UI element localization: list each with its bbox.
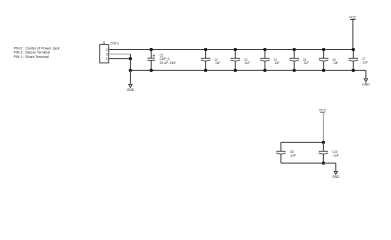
capacitor C3 xyxy=(231,48,251,72)
connector J1 box xyxy=(100,45,109,63)
wire gnd drop below connector xyxy=(129,70,131,84)
svg-text:1: 1 xyxy=(106,57,108,61)
capacitor C4 xyxy=(260,48,280,72)
svg-text:GND: GND xyxy=(362,83,370,87)
svg-text:.1uF: .1uF xyxy=(215,61,221,65)
svg-text:2: 2 xyxy=(106,48,108,52)
ground symbol right xyxy=(362,79,370,87)
capacitor C10 xyxy=(319,142,340,164)
svg-text:VCC: VCC xyxy=(349,15,356,19)
wire pin1 stub xyxy=(109,58,131,60)
svg-text:GND: GND xyxy=(332,175,340,179)
svg-text:J1: J1 xyxy=(102,41,106,45)
svg-text:.1uF: .1uF xyxy=(332,154,339,158)
junction vcc node xyxy=(322,141,325,144)
svg-text:.1uF: .1uF xyxy=(362,60,368,64)
wire gnd drop bottom xyxy=(335,163,337,171)
capacitor C2 xyxy=(201,48,221,72)
wire vertical pin3-pin1-gnd xyxy=(129,54,131,70)
capacitor C5 xyxy=(289,48,309,72)
wire gnd drop right xyxy=(365,70,367,78)
power VCC top xyxy=(349,15,356,49)
wire bottom rail xyxy=(130,69,366,71)
wire bottom rail of bottom block xyxy=(281,162,336,164)
ground symbol left xyxy=(127,84,135,92)
wire pin3 grey stub xyxy=(109,53,131,55)
junction bottom rail left xyxy=(129,69,132,72)
svg-text:.1uF: .1uF xyxy=(274,61,280,65)
wire pin2 to top rail xyxy=(109,49,354,51)
svg-text:.1uF: .1uF xyxy=(290,154,297,158)
svg-text:VCC: VCC xyxy=(319,108,326,112)
capacitor C6 xyxy=(319,48,339,72)
svg-text:PIN 1 : Shunt Terminal: PIN 1 : Shunt Terminal xyxy=(14,54,49,59)
svg-text:22 uF, 16V: 22 uF, 16V xyxy=(160,61,177,65)
ground symbol bottom xyxy=(332,171,340,179)
junction pin1 xyxy=(129,57,132,60)
capacitor C8 xyxy=(276,142,296,163)
svg-text:.1uF: .1uF xyxy=(303,61,309,65)
wire top of bottom block xyxy=(281,141,324,143)
capacitor C1 xyxy=(147,48,176,72)
svg-text:.1uF: .1uF xyxy=(244,61,250,65)
svg-text:.1uF: .1uF xyxy=(333,61,339,65)
capacitor C7 xyxy=(349,48,369,72)
svg-text:GND: GND xyxy=(127,88,135,92)
power VCC bottom grey xyxy=(319,108,326,142)
svg-text:3: 3 xyxy=(106,52,108,56)
svg-text:CON 3: CON 3 xyxy=(110,42,118,46)
